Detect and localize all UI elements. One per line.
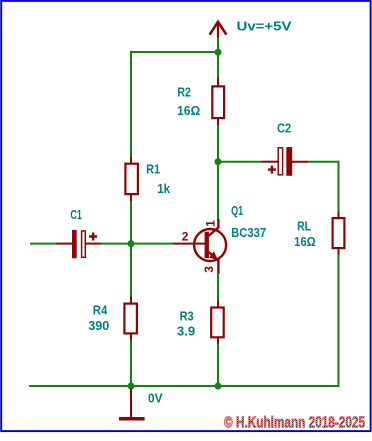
svg-text:1k: 1k (157, 181, 171, 196)
svg-text:1: 1 (203, 220, 217, 227)
svg-text:R2: R2 (177, 85, 191, 100)
wire R4 to ground rail (130, 340, 132, 387)
wire C2 to RL corner (308, 161, 340, 163)
svg-text:3: 3 (202, 266, 216, 273)
wire ground rail (29, 385, 340, 387)
pin R2 bottom (217, 119, 219, 127)
svg-text:© H.Kuhlmann 2018-2025: © H.Kuhlmann 2018-2025 (224, 415, 365, 432)
resistor R3 (211, 308, 224, 338)
resistor R1 (125, 164, 137, 194)
svg-text:BC337: BC337 (231, 225, 266, 240)
pin R4 bottom (130, 333, 132, 341)
pin C2 right (292, 161, 308, 163)
resistor RL (333, 218, 345, 248)
pin R3 bottom (217, 337, 219, 345)
svg-text:0V: 0V (148, 391, 163, 406)
svg-text:16Ω: 16Ω (177, 103, 200, 118)
pin R1 top (130, 157, 132, 165)
wire input stub (30, 243, 57, 245)
power supply arrow Uv (210, 22, 227, 38)
wire collector column upper (217, 52, 219, 78)
node ground junction (128, 383, 135, 390)
wire emitter down (217, 273, 219, 301)
pin R2 top (217, 78, 219, 87)
wire R2 to collector junction (217, 126, 219, 163)
pin R1 bottom (130, 194, 132, 202)
transistor Q1 (173, 219, 226, 274)
svg-text:R3: R3 (180, 308, 194, 323)
node emitter ground junction (215, 383, 222, 390)
svg-text:Q1: Q1 (231, 203, 243, 218)
capacitor C2 (268, 147, 292, 176)
wire top rail (130, 51, 218, 53)
pin R4 top (130, 297, 132, 305)
pin RL top (338, 212, 340, 219)
wire base junction to transistor (131, 243, 173, 245)
ground (119, 389, 145, 419)
wire RL vertical upper (338, 161, 340, 212)
wire R1 to base junction (130, 201, 132, 297)
svg-text:C1: C1 (70, 207, 82, 222)
capacitor C1 (72, 230, 97, 258)
svg-text:16Ω: 16Ω (294, 234, 316, 249)
svg-text:R4: R4 (93, 302, 108, 317)
svg-text:C2: C2 (277, 121, 291, 136)
resistor R2 (212, 86, 224, 118)
wire R3 to ground rail (217, 344, 219, 386)
wire collector junction to C2 (218, 161, 262, 163)
pin C1 left (56, 243, 72, 245)
pin RL bottom (338, 248, 340, 256)
resistor R4 (124, 304, 136, 334)
svg-text:Uv=+5V: Uv=+5V (237, 19, 292, 34)
svg-text:RL: RL (297, 218, 311, 233)
svg-text:R1: R1 (146, 162, 160, 177)
pin C1 right (86, 243, 102, 245)
node power junction (215, 49, 222, 56)
svg-text:3.9: 3.9 (177, 324, 195, 339)
wire power stem to top rail (217, 38, 219, 53)
svg-text:390: 390 (88, 318, 109, 333)
wire RL vertical lower (338, 255, 340, 387)
pin C2 left (262, 161, 278, 163)
node base junction (128, 240, 135, 247)
node collector junction (215, 158, 222, 165)
pin R3 top (217, 301, 219, 309)
svg-text:2: 2 (182, 230, 189, 244)
wire collector junction down (217, 162, 219, 220)
wire left vertical upper (130, 51, 132, 158)
wire C1 to base junction (102, 243, 132, 245)
